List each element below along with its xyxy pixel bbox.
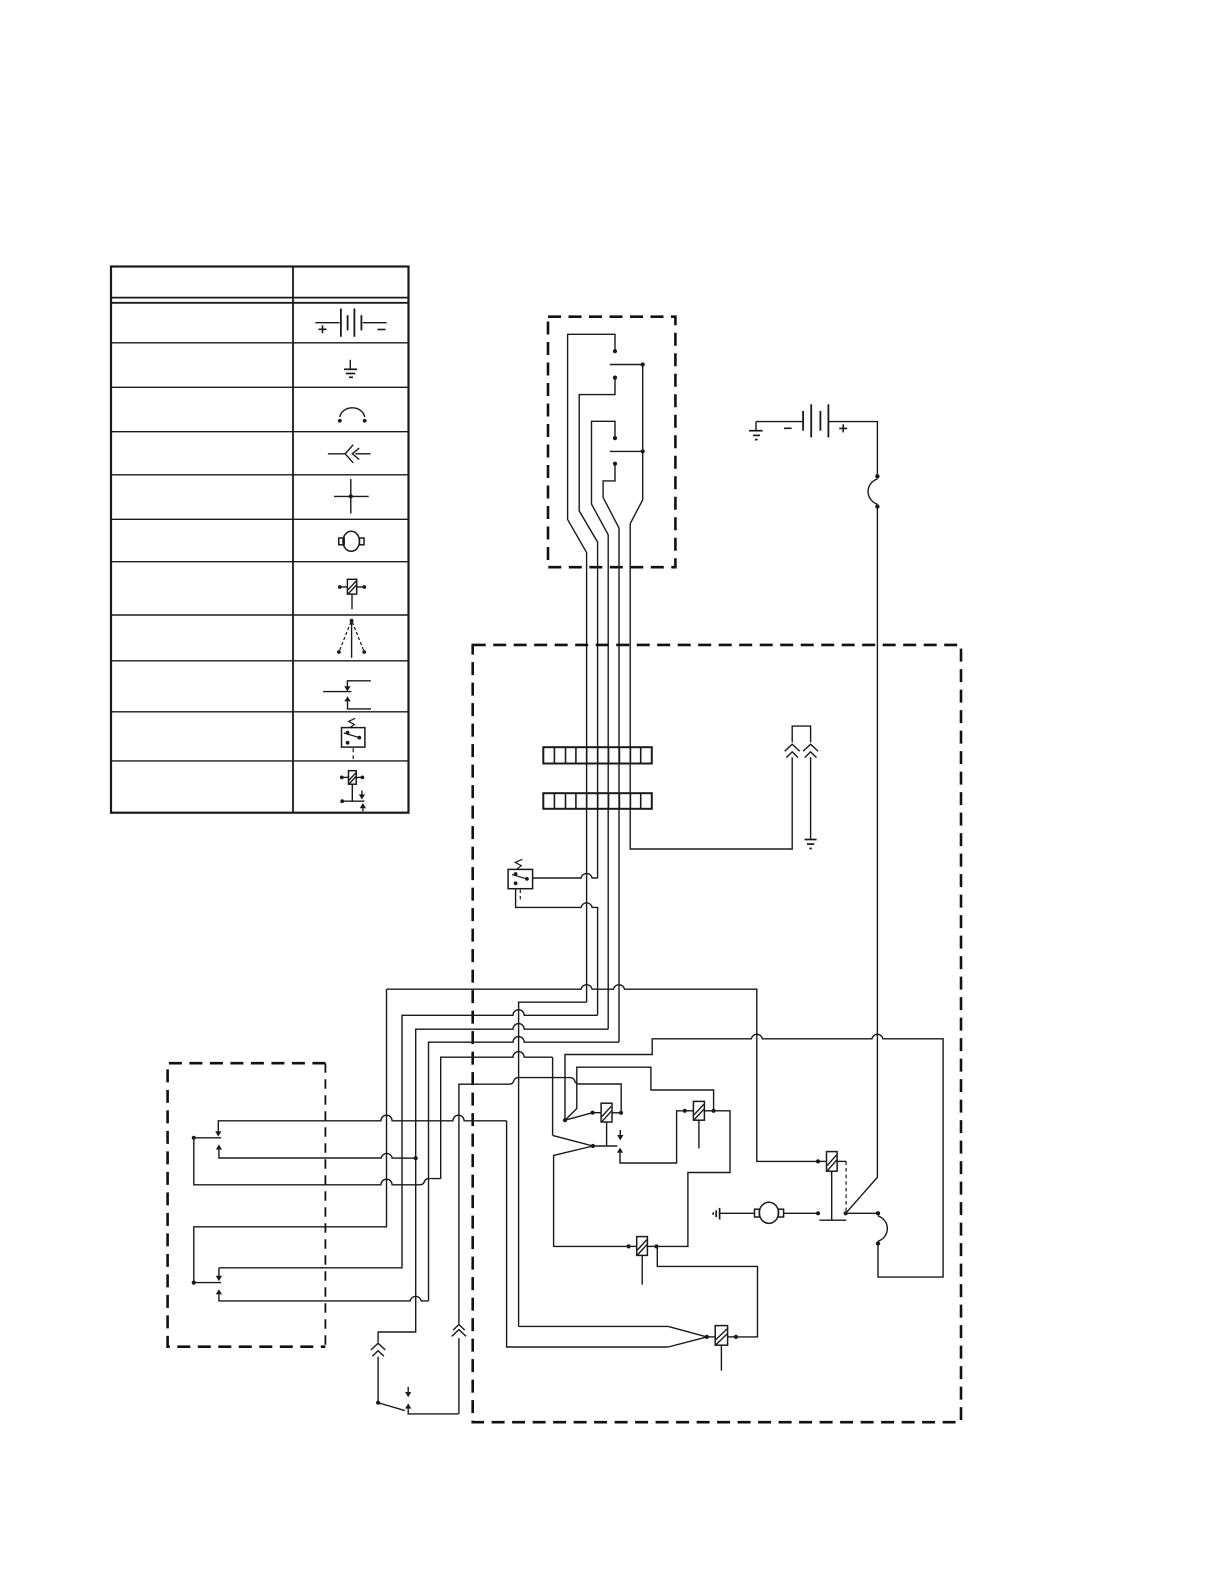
ground inside control unit	[805, 840, 817, 849]
relay K1	[508, 859, 532, 901]
wire junction symbol (legend)	[334, 479, 369, 514]
blade to S1 left terminal	[563, 1113, 593, 1123]
solenoid symbol (legend)	[338, 579, 366, 609]
dashed box: ignition switch assembly	[548, 317, 675, 568]
wire F: bottom switch to S1 right terminal	[452, 1078, 622, 1414]
solenoid S2	[683, 1101, 716, 1148]
upper contact bar and dot	[192, 1136, 221, 1140]
harness chevron connector symbol (legend)	[328, 445, 371, 463]
blade S1 armature dot to S4 feed	[554, 1146, 629, 1246]
legend table frame	[111, 267, 409, 813]
wire E fan-out bridge	[441, 1052, 553, 1179]
connector strip CN1	[543, 747, 652, 763]
solenoid S4	[627, 1237, 659, 1285]
switch contact wire L5 (junction on L2)	[610, 449, 645, 453]
solenoid S3	[816, 1152, 847, 1221]
lower contact: down-arrow from wire B	[216, 1268, 222, 1281]
staircase wire 2: S1 left switch to S2 right terminal	[565, 1067, 714, 1120]
S1 contact up-arrow to S2 left terminal	[617, 1111, 685, 1163]
chevron connector on wire C	[371, 1343, 385, 1403]
wire w1 jog to x519	[519, 1002, 587, 1326]
dashed box: main control unit	[473, 645, 961, 1422]
wire A: H1 branch down to lower contact bar	[194, 989, 387, 1282]
switch contact wire L4 (to pin w3)	[592, 421, 618, 1029]
wire relay coil to w2 lower branch	[516, 889, 598, 1016]
motor symbol (legend)	[339, 531, 364, 551]
wire relay contact to w2	[533, 873, 598, 878]
wire J2 right to ground	[810, 757, 812, 839]
staircase wire: S1 left switch to connector arc J3	[565, 1034, 943, 1277]
wire battery feed down to motor switch	[846, 507, 878, 1214]
battery symbol (legend)	[315, 309, 386, 337]
battery B1	[756, 404, 847, 437]
lower contact bar and dot	[192, 1281, 221, 1285]
chevron marks J2 left	[785, 744, 800, 757]
solenoid contact symbol (legend)	[340, 771, 366, 812]
wire w4 fan-out D to lower contact up-arrow	[429, 1037, 620, 1301]
motor switch node and wire to connector arc J3	[844, 1211, 878, 1215]
chevron connector J2 bracket	[792, 726, 810, 742]
relay symbol (legend)	[342, 718, 365, 759]
S1 moving contact bar	[591, 1144, 617, 1148]
switch contact wire L3 (to pin w2)	[579, 376, 617, 879]
wire S4 right to S5 right terminal	[657, 1248, 757, 1337]
dashed box: gearshift switch	[168, 1063, 326, 1347]
switch contact wire L2 (to pin w5)	[610, 362, 792, 849]
ground at motor	[713, 1208, 719, 1220]
connector arc J1 on battery feed	[868, 474, 880, 509]
wire: upper contact feed down to S5 lower blade	[507, 1121, 669, 1347]
motor M	[720, 1202, 821, 1223]
upper contact bar wire to E vertical	[194, 1138, 441, 1185]
chevron marks J2 right	[803, 744, 818, 757]
connector arc J3	[876, 1211, 888, 1246]
upper contact: feed wire to down-arrow	[215, 1115, 506, 1136]
wire w2 fan-out B to lower contact down-arrow	[219, 1010, 598, 1268]
connector arc symbol (legend)	[338, 408, 367, 423]
upper contact up-arrow to wire C junction	[216, 1144, 416, 1158]
solenoid S1	[591, 1103, 624, 1146]
switch contact wire L1 (to pin w1)	[568, 334, 618, 1002]
wire S2 right terminal to S4 right terminal	[656, 1111, 730, 1247]
wire w3 fan-out C	[378, 1024, 608, 1343]
wire battery positive feed	[828, 422, 877, 477]
lower contact up-arrow to wire D	[216, 1289, 429, 1301]
ground symbol (legend)	[344, 360, 357, 378]
solenoid S5	[705, 1326, 738, 1371]
wire E blade to S1 armature dot	[553, 1135, 593, 1146]
ground at battery	[749, 422, 763, 440]
wire H1: lower contact bar to solenoid S3	[387, 985, 819, 1162]
connector strip CN2	[543, 793, 652, 809]
wire w1 to S5 upper blade	[519, 1325, 669, 1327]
S1 contact down-arrow	[617, 1130, 623, 1141]
contact arrows symbol (legend)	[323, 681, 371, 709]
bottom switch: wire C blade and contact dot	[376, 1401, 405, 1411]
multi-connection symbol (legend)	[337, 619, 366, 658]
S5 input blades	[668, 1326, 707, 1347]
switch contact wire L6 (to pin w4)	[603, 462, 619, 1043]
bottom switch arrows to wire F	[405, 1387, 458, 1414]
